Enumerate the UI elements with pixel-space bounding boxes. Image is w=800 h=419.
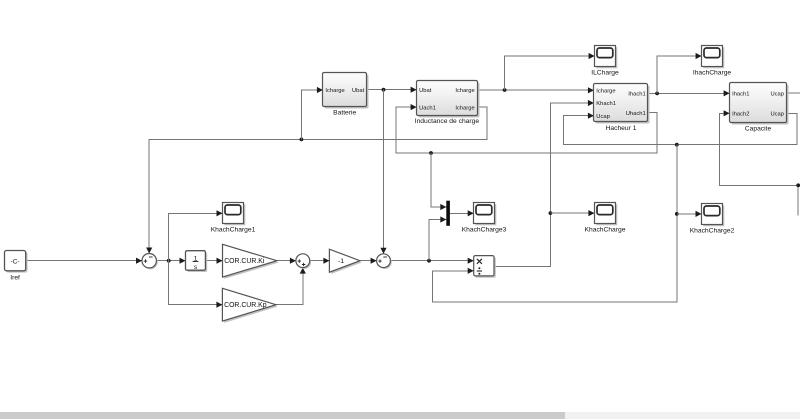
wire Sum2 to gain -1	[310, 258, 330, 264]
label Batterie	[333, 110, 356, 117]
svg-text:-1: -1	[338, 258, 344, 265]
wire Icharge feedback	[146, 107, 487, 253]
svg-text:Inductance de charge: Inductance de charge	[415, 118, 480, 125]
wire Ubat branch to Sum3	[380, 90, 386, 254]
svg-text:Capacite: Capacite	[745, 126, 772, 133]
wire error branch to KhachCharge1	[169, 210, 223, 261]
wire Batterie Ubat to Inductance	[367, 87, 417, 93]
label Inductance de charge	[415, 118, 480, 125]
svg-text:IhachCharge: IhachCharge	[693, 70, 732, 77]
scrollbar track	[0, 412, 800, 419]
svg-text:KhachCharge: KhachCharge	[585, 227, 626, 234]
wire Ihach2 feed	[719, 110, 800, 215]
wire Ucap output to edge	[786, 92, 800, 94]
wire branch to Batterie	[301, 87, 323, 139]
sum S1	[142, 254, 158, 270]
wire Sum3 to Product	[390, 258, 473, 264]
product block divide	[474, 256, 496, 278]
wire Uhach1 to Inductance Uach1	[396, 104, 657, 155]
label Capacite	[745, 126, 772, 133]
wire gain -1 to Sum3	[360, 258, 377, 264]
svg-text:Batterie: Batterie	[333, 110, 356, 117]
svg-text:ILCharge: ILCharge	[591, 70, 619, 77]
wire branch to KhachCharge	[550, 210, 594, 216]
wire Product to Hacheur Khach1	[494, 100, 594, 266]
ports Hacheur 1	[596, 89, 645, 120]
gain -1	[329, 249, 361, 274]
svg-text:Uhach1: Uhach1	[626, 111, 646, 117]
scope IhachCharge	[693, 46, 732, 77]
wire branch to IhachCharge	[657, 53, 702, 94]
scope KhachCharge	[585, 203, 626, 234]
svg-text:Ihach1: Ihach1	[732, 91, 749, 97]
subsystem Batterie	[323, 73, 369, 109]
svg-text:KhachCharge3: KhachCharge3	[462, 227, 507, 234]
mux M1	[446, 201, 450, 226]
gain COR.CUR.Ki	[223, 244, 279, 279]
svg-text:Ubat: Ubat	[352, 88, 365, 94]
scope KhachCharge1	[211, 203, 256, 234]
wire Uhach1 branch to Mux input 1	[431, 153, 446, 210]
scrollbar thumb	[0, 412, 565, 419]
scope ILCharge	[591, 46, 619, 77]
label Iref	[10, 274, 20, 281]
svg-text:Ihach1: Ihach1	[628, 92, 645, 98]
svg-text:COR.CUR.Kp: COR.CUR.Kp	[224, 302, 267, 309]
wire branch to Mux input 2	[429, 216, 446, 260]
svg-text:Uach1: Uach1	[419, 106, 436, 112]
scope KhachCharge3	[462, 203, 507, 234]
wire Integrator to COR.CUR.Ki	[205, 258, 222, 264]
svg-text:COR.CUR.Ki: COR.CUR.Ki	[224, 258, 265, 265]
sum S2	[296, 254, 311, 269]
svg-text:Iref: Iref	[10, 274, 20, 281]
ports Capacite	[732, 91, 784, 117]
gain COR.CUR.Kp	[222, 288, 277, 323]
subsystem Hacheur 1	[594, 84, 650, 124]
wire Mux to KhachCharge3	[450, 210, 474, 216]
wire branch to ILCharge	[505, 53, 595, 90]
svg-text:Icharge: Icharge	[325, 88, 344, 94]
wire error branch to COR.CUR.Kp	[169, 261, 223, 308]
constant Iref	[5, 251, 28, 273]
svg-text:Ucap: Ucap	[770, 91, 784, 97]
svg-text:Hacheur 1: Hacheur 1	[606, 125, 637, 132]
svg-text:KhachCharge1: KhachCharge1	[211, 227, 256, 234]
integrator 1/s	[186, 251, 208, 272]
wire Sum1 to Integrator	[156, 258, 185, 264]
sum S3	[377, 254, 392, 269]
subsystem Capacite	[730, 83, 789, 125]
subsystem Inductance de charge	[417, 81, 480, 118]
svg-text:Ucap: Ucap	[596, 114, 610, 120]
wire Inductance Icharge to Hacheur	[477, 87, 594, 93]
wire Hacheur Ihach1 to Capacite	[648, 90, 730, 96]
wire Ucap feedback to Hacheur	[563, 113, 797, 147]
svg-text:Ucap: Ucap	[770, 112, 784, 118]
wire Ucap branch down	[432, 145, 678, 302]
ports Inductance de charge	[419, 88, 475, 112]
svg-text:Icharge: Icharge	[455, 88, 474, 94]
svg-text:Ubat: Ubat	[419, 88, 432, 94]
svg-text:Icharge: Icharge	[455, 106, 474, 112]
wire COR.CUR.Ki to Sum2	[277, 258, 296, 264]
ports Batterie	[325, 88, 364, 94]
svg-text:Ihach2: Ihach2	[732, 112, 749, 118]
svg-text:KhachCharge2: KhachCharge2	[690, 228, 735, 235]
wire Ucap branch to KhachCharge2	[677, 211, 702, 217]
svg-text:Khach1: Khach1	[596, 101, 616, 107]
label Hacheur 1	[606, 125, 637, 132]
wire Iref to Sum1	[26, 258, 142, 264]
wire COR.CUR.Kp to Sum2	[276, 268, 306, 305]
svg-text:Icharge: Icharge	[596, 89, 615, 95]
scope KhachCharge2	[690, 204, 735, 235]
svg-text:-C-: -C-	[11, 258, 20, 265]
